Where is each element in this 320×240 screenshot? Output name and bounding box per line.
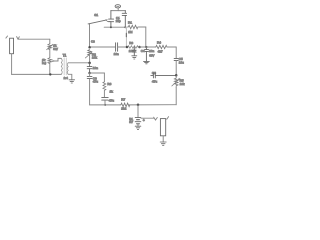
wire between left resistors (49, 50, 51, 58)
wire R3 to C4 node (138, 46, 146, 48)
wire battery bottom lead (137, 124, 139, 126)
junction dot battery (137, 104, 140, 107)
capacitor C1 (left branch) (109, 11, 114, 28)
switch arm S1 (88, 20, 107, 24)
battery B1 (135, 118, 141, 124)
wire emitter node to R6 (90, 72, 105, 74)
svg-text:log: log (42, 61, 46, 65)
junction dot top of trimmer R2 (88, 46, 91, 49)
resistor R3 (horizontal) (128, 46, 138, 49)
svg-text:47u: 47u (152, 79, 157, 83)
svg-text:R7: R7 (121, 98, 125, 102)
ground A (132, 56, 137, 59)
svg-text:S1: S1 (94, 13, 98, 17)
svg-text:T1: T1 (63, 53, 67, 57)
wire wiper to transformer (56, 58, 62, 61)
potentiometer R5 (vertical with diagonal arrow) (172, 75, 180, 87)
svg-text:2k2: 2k2 (121, 106, 126, 110)
wire pot bottom to rail corner (175, 87, 177, 105)
svg-text:4k7: 4k7 (158, 49, 163, 53)
wire top-left (19, 38, 50, 40)
wire T1 secondary top to node (68, 62, 89, 64)
junction dot at pot bottom rail (49, 73, 51, 75)
wire oval to top bus (117, 8, 119, 11)
resistor R1a (vertical small) (47, 44, 53, 50)
wire box right vertical down to main wire (125, 27, 126, 47)
svg-text:1k: 1k (110, 89, 114, 93)
junction dot R3 left (126, 46, 129, 49)
capacitor C3 (horizontal in main wire) (116, 43, 118, 51)
wire C9 to rail (104, 100, 106, 105)
resistor R5h (horizontal bottom) (120, 103, 130, 107)
earphone LS1 (rect) (160, 117, 168, 136)
transformer T1 (61, 58, 68, 75)
switch contact stub (107, 21, 111, 23)
wire bottom-left rail (12, 73, 62, 75)
capacitor C4 (vertical to ground) (144, 47, 148, 61)
wire C3 to R3 (118, 46, 127, 48)
junction dot R3 right (138, 46, 141, 49)
wire antenna corner down (49, 39, 51, 44)
capacitor C9 (series below R6) (102, 97, 109, 100)
ground battery (135, 126, 141, 129)
wire R6 top lead (103, 73, 105, 82)
wire earphone bottom (162, 136, 164, 142)
node main wire y47: T1/diode node to C3 (90, 46, 115, 48)
wire right vertical (175, 47, 177, 58)
svg-text:R3: R3 (129, 41, 133, 45)
junction dot R6 branch on rail (104, 104, 106, 106)
junction dot right cap bottom (124, 26, 126, 28)
wire pot bottom to rail (49, 64, 51, 75)
wire left-vert-down from X1 (11, 54, 13, 75)
svg-text:1M: 1M (128, 30, 133, 34)
svg-text:C3: C3 (91, 39, 95, 43)
svg-text:10n: 10n (149, 49, 154, 53)
wire battery plus to earphone (141, 117, 154, 119)
svg-text:47u: 47u (109, 98, 114, 102)
wire R4 to right corner (167, 46, 176, 48)
capacitor C2 (right branch) (122, 11, 126, 28)
svg-text:C4: C4 (141, 49, 145, 53)
trimmer R2 (vertical small zigzag with arrow) (85, 50, 92, 58)
wire top bus (111, 10, 125, 12)
svg-text:10n: 10n (93, 66, 98, 70)
wire C8 to bottom rail (89, 73, 91, 105)
transducer X1 (input piezo) (6, 36, 19, 54)
wire R6 bottom lead (103, 91, 105, 97)
ground C4 (144, 61, 150, 63)
svg-text:63V: 63V (149, 53, 154, 57)
svg-text:10k: 10k (180, 82, 185, 86)
wire lower bus of box (104, 26, 126, 28)
svg-text:R1: R1 (128, 21, 132, 25)
wire R2 bottom to T1 node (89, 55, 91, 62)
connector V mark earphone (154, 117, 158, 120)
wire T1 secondary bottom (68, 74, 72, 80)
svg-text:20p: 20p (116, 19, 121, 23)
bottom rail middle (129, 104, 177, 106)
svg-text:10k: 10k (92, 56, 97, 60)
potentiometer P1 (vertical small with wiper arrow) (48, 58, 56, 64)
svg-text:+: + (143, 119, 145, 123)
wire battery top lead (137, 105, 139, 117)
junction dot pot top (175, 74, 178, 77)
svg-text:47u: 47u (93, 80, 98, 84)
bottom rail left (90, 104, 121, 106)
wire switch pivot vertical (89, 24, 91, 47)
wire C5 to pot node (175, 61, 177, 75)
wire R1 to corner (139, 26, 146, 28)
svg-text:9V: 9V (129, 120, 134, 124)
resistor R1 (horizontal top) (127, 25, 139, 29)
capacitor C5 (in right vertical) (174, 58, 178, 60)
svg-text:10u: 10u (179, 61, 184, 65)
junction dot left cap bottom (110, 26, 112, 28)
resistor R4 (horizontal) (156, 45, 167, 48)
svg-text:10n: 10n (114, 52, 119, 56)
svg-text:R6: R6 (107, 82, 111, 86)
wire corner down to C4 node (145, 27, 147, 47)
junction dot T1 secondary node (88, 62, 91, 65)
wire C4 node to R4 (146, 46, 155, 48)
svg-text:1:4: 1:4 (64, 76, 69, 80)
ground earphone (160, 142, 166, 145)
capacitor C7 (vertical in line) (87, 63, 92, 73)
svg-text:R4: R4 (157, 41, 161, 45)
junction dot emitter node (88, 72, 91, 75)
svg-text:5W: 5W (53, 47, 58, 51)
capacitor C8 (vertical below node) (87, 76, 92, 78)
cap to ground A (x134) (132, 47, 136, 56)
capacitor C6 (horizontal) (151, 73, 176, 78)
ground under T1 (69, 80, 75, 83)
trimmer cap oval top (115, 5, 120, 8)
junction dot C4 (145, 46, 147, 48)
resistor R6 (vertical) (103, 82, 106, 91)
